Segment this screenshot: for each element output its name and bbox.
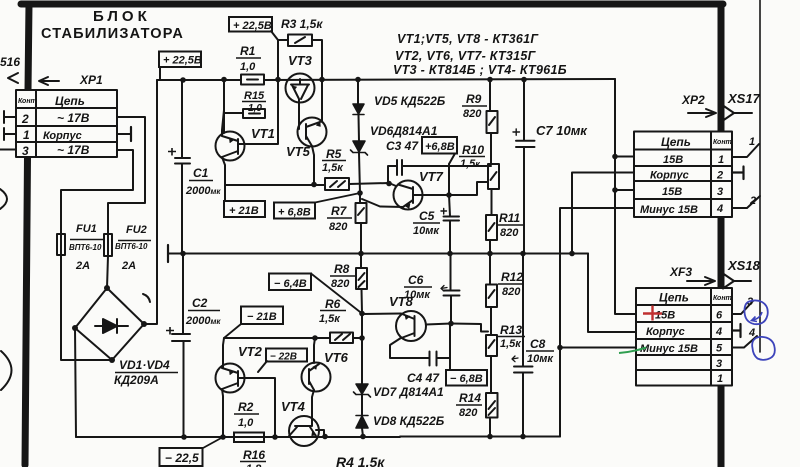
svg-text:+ 21В: + 21В — [229, 205, 259, 217]
voltage box +6,8V small — [422, 137, 457, 154]
svg-text:3: 3 — [717, 186, 723, 198]
svg-text:1: 1 — [749, 136, 755, 148]
svg-text:VT1: VT1 — [251, 126, 275, 141]
XF3 pin5 contact — [732, 336, 757, 348]
resistor R2 (in bottom rail) — [234, 433, 264, 443]
svg-text:Конт: Конт — [713, 295, 732, 302]
wire VD5 from bus — [357, 79, 359, 104]
svg-text:1,8: 1,8 — [246, 463, 262, 467]
wire VT7 base to node — [414, 194, 449, 196]
fuse FU2 — [104, 234, 112, 256]
svg-text:10мк: 10мк — [527, 353, 554, 365]
transistor VT2 — [216, 364, 245, 393]
svg-text:2А: 2А — [121, 260, 136, 272]
svg-text:+ 22,5В: + 22,5В — [233, 20, 272, 32]
connector XP1 table frame — [16, 90, 117, 157]
wire bridge left node to bottom rail — [75, 328, 184, 437]
capacitor C1 — [175, 80, 190, 253]
svg-text:VT1;VT5, VT8 - КТ361Г: VT1;VT5, VT8 - КТ361Г — [397, 32, 539, 46]
wire VT7 emitter to R7 node — [362, 199, 403, 207]
svg-text:R14: R14 — [459, 391, 481, 405]
wire to XP2 pin1 — [615, 156, 634, 158]
svg-text:Минус 15В: Минус 15В — [640, 204, 698, 216]
wire XP1 pin1 to chassis — [117, 133, 131, 135]
voltage box +22,5V upper — [229, 17, 272, 32]
resistor R12 — [486, 285, 497, 308]
wire VD5 to VD6 — [358, 115, 361, 141]
svg-text:VT3: VT3 — [288, 53, 313, 68]
svg-text:15В: 15В — [663, 154, 683, 166]
svg-text:С6: С6 — [408, 273, 424, 287]
svg-text:2: 2 — [716, 170, 723, 182]
wire XP1 pin2 to FU2 — [108, 117, 145, 234]
wire VT2 collector to bottom rail — [222, 389, 223, 437]
svg-text:R8: R8 — [334, 262, 350, 276]
connector XP2 arrow — [688, 109, 716, 117]
wire FU1 to bridge bottom — [61, 255, 112, 360]
wire VT8 base to node — [426, 324, 451, 325]
wire VT2 emitter riser — [223, 338, 224, 368]
link +6,8V box to node — [315, 193, 360, 203]
transistor VT6 — [302, 363, 331, 392]
connector XF3 arrow — [687, 277, 715, 285]
voltage box +21V — [224, 201, 265, 217]
voltage box +6,8V mid — [274, 203, 315, 219]
wire VT2 base — [239, 378, 275, 437]
svg-text:Корпус: Корпус — [646, 326, 685, 338]
svg-text:С3 47: С3 47 — [386, 139, 419, 153]
transistor VT5 — [298, 118, 327, 147]
left edge circle fragment B — [1, 351, 12, 390]
XP1 pin 2 stub — [4, 111, 16, 123]
svg-text:VD6Д814А1: VD6Д814А1 — [370, 124, 438, 138]
svg-text:ХР2: ХР2 — [681, 93, 705, 107]
XP2 pin1 contact — [732, 144, 759, 157]
svg-text:VT5: VT5 — [286, 144, 311, 159]
wire XP1 pin3 to FU1 — [61, 150, 133, 234]
svg-text:1: 1 — [717, 373, 723, 385]
svg-text:С5: С5 — [419, 209, 435, 223]
svg-text:1,0: 1,0 — [240, 61, 256, 73]
svg-text:R3 1,5к: R3 1,5к — [281, 17, 323, 31]
svg-text:− 6,4В: − 6,4В — [274, 278, 307, 290]
wire VT8 collector — [390, 339, 429, 359]
wire R15 loop left — [224, 79, 243, 133]
XF3 pin6 contact — [732, 301, 753, 314]
blue pen oval annotation — [744, 300, 767, 324]
svg-text:2000мк: 2000мк — [185, 185, 221, 197]
wire mid rail up to XP2 korpus — [572, 173, 634, 254]
wire VT5 emitter to +21V rail — [312, 146, 314, 184]
link -21V box to node — [224, 324, 241, 338]
wire R12 to R13 — [490, 307, 492, 335]
svg-text:С8: С8 — [530, 337, 546, 351]
voltage box -6,4V — [269, 274, 311, 291]
resistor R15 — [243, 109, 265, 118]
link +22,5V box1 — [271, 31, 278, 79]
connector XS18 socket symbol — [723, 274, 751, 289]
svg-text:− 22В: − 22В — [270, 352, 297, 363]
+21V rail — [225, 184, 325, 186]
svg-text:XF3: XF3 — [669, 265, 692, 279]
wire R10 to R11 — [491, 189, 493, 215]
svg-text:R12: R12 — [501, 270, 523, 284]
wire node to R10 tap — [449, 182, 488, 195]
XF3 pin4 chassis — [732, 324, 741, 337]
wire VT1 emitter to bus — [222, 79, 224, 136]
svg-text:R9: R9 — [466, 92, 482, 106]
right thin vertical rail — [759, 0, 761, 352]
svg-text:820: 820 — [502, 286, 521, 298]
wire R3 left — [278, 39, 288, 41]
blue pen arrow in oval — [752, 312, 763, 322]
wire VT6 emitter riser — [314, 338, 315, 363]
connector XS17 socket symbol — [723, 106, 752, 121]
svg-text:820: 820 — [500, 227, 519, 239]
XP1 pin 1 stub — [4, 128, 16, 140]
svg-text:R4 1,5к: R4 1,5к — [336, 454, 385, 467]
svg-text:3: 3 — [716, 358, 722, 370]
voltage box -22V — [266, 349, 307, 362]
C8 polarity tick — [512, 356, 518, 362]
voltage box +22,5V left — [159, 52, 201, 68]
svg-text:820: 820 — [463, 108, 482, 120]
wire VD7 to VD8 — [361, 395, 363, 416]
svg-text:КД209А: КД209А — [114, 373, 159, 387]
resistor R1 (in top bus) — [241, 75, 264, 85]
svg-text:Минус 15В: Минус 15В — [640, 343, 698, 355]
svg-text:1: 1 — [23, 128, 30, 142]
svg-text:VD1·VD4: VD1·VD4 — [119, 358, 170, 372]
link +6,8V small box — [449, 154, 455, 165]
svg-text:VD7 Д814А1: VD7 Д814А1 — [373, 385, 444, 399]
capacitor C3 — [388, 160, 449, 183]
svg-text:Цепь: Цепь — [661, 135, 691, 149]
resistor R6 — [330, 333, 353, 344]
chassis ground at XP1 — [130, 127, 132, 141]
svg-text:1,0: 1,0 — [248, 103, 262, 114]
border frame thick left — [25, 4, 29, 465]
link -22,5V box to rail — [203, 437, 223, 448]
bridge rectifier VD1-VD4 diamond — [75, 288, 144, 360]
svg-text:5: 5 — [716, 343, 723, 355]
svg-text:FU2: FU2 — [126, 224, 147, 236]
svg-text:1,5к: 1,5к — [322, 162, 344, 174]
wire VT3 emitter to VT5 base — [298, 103, 300, 129]
svg-text:6: 6 — [716, 310, 723, 322]
svg-text:2000мк: 2000мк — [185, 315, 221, 327]
svg-text:С1: С1 — [193, 166, 209, 180]
left edge circle fragment A — [0, 189, 7, 209]
wire emitter line y338 — [224, 337, 362, 339]
transistor VT4 — [289, 416, 319, 446]
connector XP2 table frame — [634, 132, 732, 218]
border frame thick right lower — [718, 386, 725, 467]
connector XP1 arrow — [39, 77, 59, 85]
XP2 pin4 contact — [732, 196, 760, 208]
wire bridge right node to top bus — [144, 80, 157, 324]
svg-text:БЛОК: БЛОК — [93, 8, 151, 25]
svg-text:4: 4 — [716, 203, 723, 215]
wire mid rail to R12 — [489, 254, 491, 285]
wire VT6 to VT4 — [312, 390, 314, 417]
handwritten tick near bridge — [143, 294, 150, 302]
wire R15 loop right — [239, 79, 278, 144]
svg-text:1,5к: 1,5к — [319, 313, 341, 325]
svg-text:ХР1: ХР1 — [79, 73, 103, 87]
wire R5 right to VT7 collector node — [349, 183, 396, 186]
svg-text:Конт: Конт — [713, 139, 732, 146]
wire R14 to bottom rail — [489, 418, 491, 437]
wire C4 node down to -6,8V box — [449, 324, 451, 371]
svg-text:15В: 15В — [655, 310, 675, 322]
svg-text:FU1: FU1 — [76, 223, 97, 235]
svg-text:Конт: Конт — [18, 98, 37, 105]
svg-text:VT3 - КТ814Б ; VT4- КТ961Б: VT3 - КТ814Б ; VT4- КТ961Б — [393, 63, 567, 77]
svg-text:ВПТ6-10: ВПТ6-10 — [115, 242, 148, 251]
svg-text:2: 2 — [749, 195, 756, 207]
svg-text:R1: R1 — [240, 44, 256, 58]
fuse FU1 — [57, 234, 65, 255]
svg-text:516: 516 — [0, 55, 20, 69]
svg-text:3: 3 — [22, 144, 29, 158]
connector XF3 table frame — [636, 288, 732, 386]
wire VD6 to node — [359, 153, 360, 203]
capacitor C4 — [430, 352, 451, 366]
C6 polarity tick — [441, 286, 447, 292]
blue pen blob annotation — [752, 337, 775, 360]
svg-text:VT4: VT4 — [281, 399, 306, 414]
svg-text:R7: R7 — [331, 204, 348, 218]
svg-text:VD5 КД522Б: VD5 КД522Б — [374, 94, 446, 108]
capacitor C8 — [514, 254, 533, 437]
svg-text:− 21В: − 21В — [247, 311, 277, 323]
wire R9 to R10 — [490, 133, 492, 164]
svg-text:XS17: XS17 — [727, 91, 761, 106]
wire bottom rail corner to XP2 minus — [560, 208, 634, 437]
voltage box -6,8V — [446, 370, 487, 386]
resistor R7 — [356, 203, 367, 223]
svg-text:R13: R13 — [500, 323, 522, 337]
svg-text:+6,8В: +6,8В — [425, 141, 455, 153]
transistor VT7 — [394, 181, 423, 210]
wire minus branch to XF3 — [560, 347, 636, 349]
svg-text:С7 10мк: С7 10мк — [536, 123, 588, 138]
svg-text:R11: R11 — [499, 211, 520, 225]
wire FU2 to bridge top — [107, 256, 108, 288]
red pen plus mark — [643, 306, 662, 321]
capacitor C6 — [444, 254, 460, 324]
svg-text:10мк: 10мк — [413, 225, 440, 237]
wire bus to R9 — [489, 79, 491, 111]
svg-text:Цепь: Цепь — [659, 291, 689, 305]
XP2 pin2 chassis — [732, 167, 744, 180]
svg-text:2А: 2А — [75, 260, 90, 272]
wire mid rail to R8 — [360, 254, 362, 269]
voltage box -22,5V — [160, 448, 203, 466]
voltage box -21V — [241, 307, 283, 325]
transistor VT3 — [286, 74, 315, 103]
border frame thick top — [21, 1, 723, 8]
svg-text:XS18: XS18 — [727, 258, 761, 273]
svg-text:VT7: VT7 — [419, 169, 444, 184]
C7 polarity plus — [513, 129, 520, 135]
link +22,5V box2 — [159, 67, 161, 80]
link -22V box — [258, 361, 267, 372]
resistor R9 — [487, 111, 498, 133]
wire mid rail to XF3 korpus — [588, 254, 636, 333]
bottom negative rail — [76, 436, 560, 439]
svg-text:~ 17В: ~ 17В — [57, 111, 90, 125]
svg-text:СТАБИЛИЗАТОРА: СТАБИЛИЗАТОРА — [41, 26, 184, 42]
svg-text:820: 820 — [331, 278, 350, 290]
svg-text:R16: R16 — [243, 448, 265, 462]
svg-text:С4 47: С4 47 — [407, 371, 440, 385]
wire node to VD7 — [361, 313, 363, 384]
link -6,4V box to node — [311, 274, 362, 314]
wire VT8 base node to R13 tap — [451, 324, 488, 332]
bridge diode symbol — [95, 319, 128, 333]
top bus +22,5V rail — [157, 79, 615, 80]
svg-text:820: 820 — [459, 407, 478, 419]
border frame thick right mid — [718, 217, 725, 288]
resistor R3 — [288, 35, 312, 47]
diode VD5 — [353, 104, 364, 115]
mid ground rail end bar — [167, 245, 169, 262]
capacitor C5 — [444, 195, 460, 254]
wire R8 to node — [361, 289, 364, 313]
wire R3 right to VT5 collector — [312, 40, 322, 122]
svg-text:+ 22,5В: + 22,5В — [163, 55, 202, 67]
border frame thick right upper — [718, 4, 725, 131]
svg-text:VT8: VT8 — [389, 294, 414, 309]
diode VD7 (zener) — [354, 384, 371, 397]
svg-text:VT2, VT6, VT7- КТ315Г: VT2, VT6, VT7- КТ315Г — [395, 49, 537, 63]
C1 polarity plus — [168, 148, 176, 156]
svg-text:Корпус: Корпус — [650, 170, 689, 182]
resistor R5 — [325, 178, 349, 190]
svg-text:4: 4 — [748, 327, 755, 339]
diode VD8 — [356, 416, 368, 429]
svg-text:VT2: VT2 — [238, 344, 263, 359]
svg-text:R15: R15 — [244, 90, 265, 102]
wire VT8 emitter to node — [362, 313, 401, 316]
svg-text:820: 820 — [329, 221, 348, 233]
svg-text:R2: R2 — [238, 400, 254, 414]
svg-text:Корпус: Корпус — [43, 130, 82, 142]
wire C3 node to R10 top — [449, 164, 491, 195]
wire R7 to mid rail — [360, 223, 362, 254]
svg-text:С2: С2 — [192, 296, 208, 310]
capacitor C2 — [172, 254, 190, 438]
transistor VT1 — [216, 132, 245, 161]
svg-text:1,5к: 1,5к — [500, 338, 522, 350]
wire to XP2 pin3 — [615, 189, 634, 191]
wire R11 to mid rail — [489, 240, 491, 254]
svg-text:VD8 КД522Б: VD8 КД522Б — [373, 414, 445, 428]
wire R13 to R14 — [490, 356, 492, 393]
svg-text:VT6: VT6 — [324, 350, 349, 365]
resistor R10 — [488, 164, 499, 189]
connector XS16 arrow (left edge) — [8, 73, 18, 83]
svg-text:− 6,8В: − 6,8В — [450, 373, 483, 385]
capacitor C7 — [516, 79, 535, 254]
svg-text:1,5к: 1,5к — [460, 158, 480, 170]
C2 polarity plus — [166, 327, 174, 335]
svg-text:R10: R10 — [462, 143, 484, 157]
svg-text:Цепь: Цепь — [55, 94, 85, 108]
svg-text:15В: 15В — [662, 186, 682, 198]
resistor R11 — [486, 215, 497, 240]
svg-text:R6: R6 — [325, 297, 341, 311]
wire bus corner down XP2 feeds — [615, 79, 636, 314]
svg-text:+ 6,8В: + 6,8В — [278, 207, 311, 219]
diode VD6 (zener) — [351, 141, 368, 155]
green pen stroke — [619, 348, 646, 354]
mid ground rail — [168, 253, 588, 255]
svg-text:4: 4 — [715, 326, 722, 338]
resistor R14 — [486, 393, 498, 418]
C5 polarity plus — [441, 209, 447, 215]
wire VT4 collector stub — [316, 430, 324, 437]
resistor R8 — [356, 268, 367, 289]
svg-text:2: 2 — [21, 112, 29, 126]
svg-text:1,0: 1,0 — [238, 417, 254, 429]
wire VD8 to bottom rail — [362, 428, 363, 437]
svg-text:~ 17В: ~ 17В — [57, 143, 90, 157]
transistor VT8 — [396, 311, 426, 341]
svg-text:ВПТ6-10: ВПТ6-10 — [69, 243, 102, 252]
svg-text:− 22,5: − 22,5 — [165, 451, 199, 465]
svg-text:1: 1 — [718, 154, 724, 166]
XP1 pin 3 stub — [0, 149, 16, 151]
wire VT1 collector down to +21V node — [222, 157, 225, 201]
svg-text:R5: R5 — [326, 147, 342, 161]
resistor R13 — [486, 335, 497, 356]
